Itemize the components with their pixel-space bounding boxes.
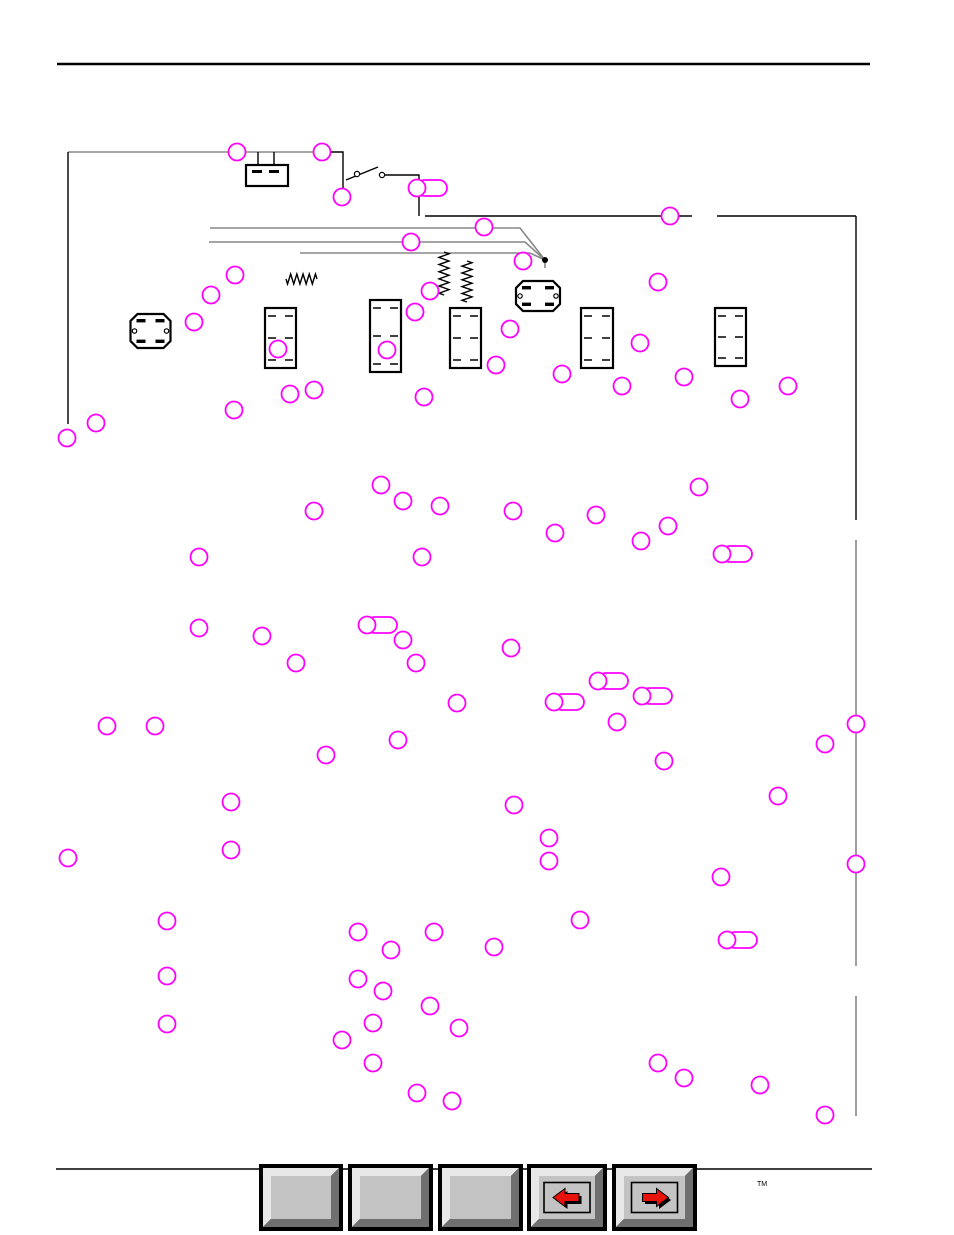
svg-text:TM: TM	[757, 1181, 767, 1188]
